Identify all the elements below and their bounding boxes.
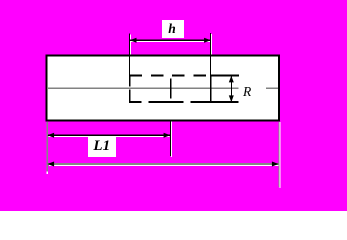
svg-text:R: R xyxy=(242,84,252,99)
